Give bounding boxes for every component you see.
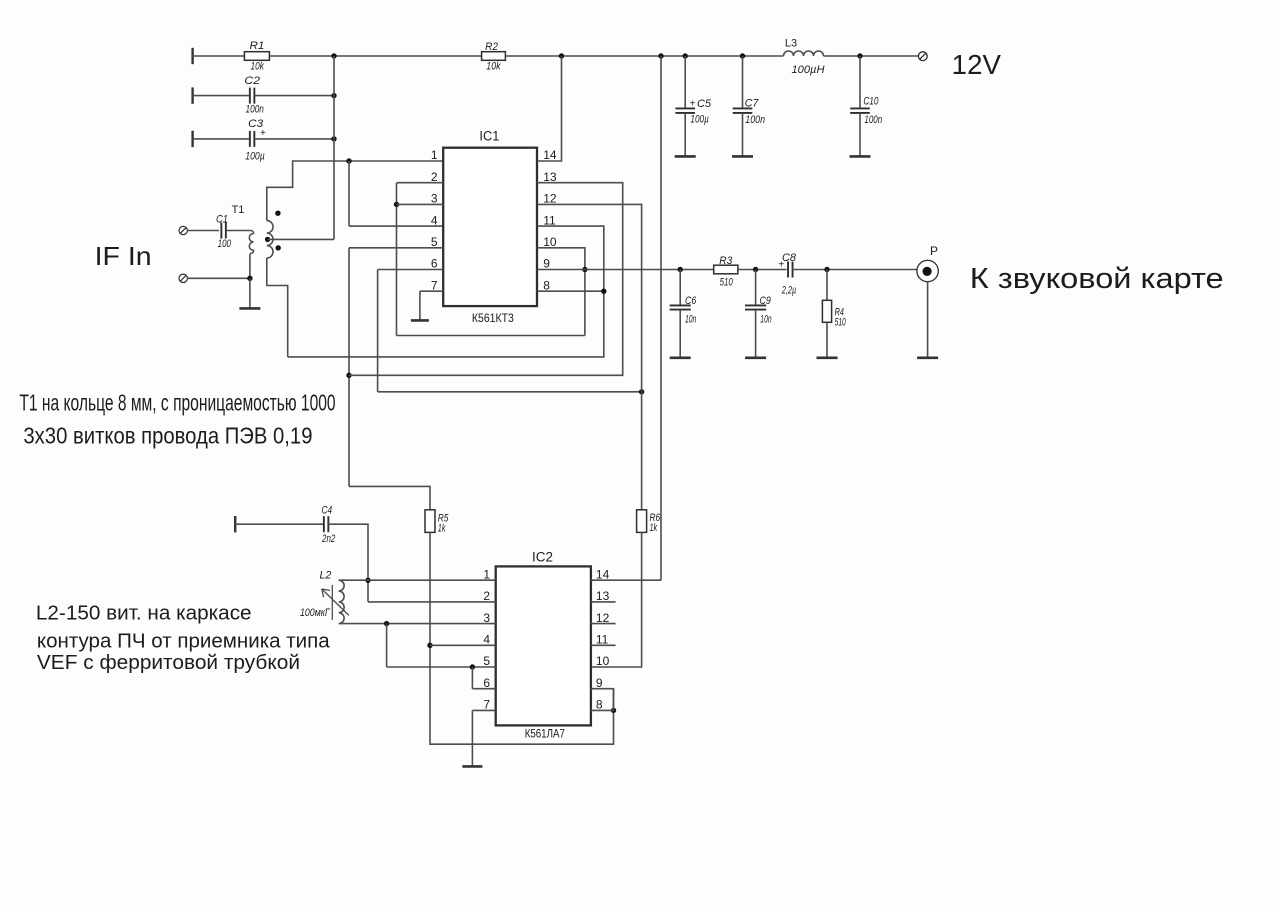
svg-text:3х30 витков провода ПЭВ 0,19: 3х30 витков провода ПЭВ 0,19 [23,422,312,448]
node junction on rail [658,53,663,58]
inductor L3 [784,51,824,56]
svg-text:C4: C4 [322,504,333,516]
wire R6 top [641,392,643,510]
svg-text:К звуковой карте: К звуковой карте [970,263,1224,295]
wire [193,95,250,97]
svg-text:6: 6 [483,676,490,690]
wire [826,270,828,301]
wire [793,269,917,271]
svg-text:R1: R1 [250,40,265,52]
svg-text:2: 2 [431,170,438,184]
core bar of L2 [331,585,333,620]
svg-text:4: 4 [483,633,490,647]
wire [684,56,686,108]
svg-text:4: 4 [431,213,438,227]
svg-text:VEF с ферритовой трубкой: VEF с ферритовой трубкой [37,651,300,674]
svg-text:7: 7 [483,698,490,712]
terminal input C2 row [191,87,193,103]
wire pin 6 of IC2 [472,688,495,690]
wire pin 5 [349,247,443,249]
node junction C9 [753,267,758,272]
wire [269,55,481,57]
svg-text:1k: 1k [650,522,658,534]
wire [254,138,334,140]
svg-text:C2: C2 [244,75,260,87]
node junction C4/pin1 [365,578,370,583]
wire pin 1 of IC2 to L2 top [339,579,496,581]
terminal IF input lower [179,274,187,282]
node T1 center tap [265,237,270,242]
node junction pin6/pin12/R6 [639,389,644,394]
wire pin 5 of IC2 [387,666,496,668]
wire pins 2-3 vertical down [396,183,398,336]
IC U2 К561ЛА7 box [496,566,591,725]
terminal IF input upper [179,226,187,234]
wire secondary top to IC1 pins 1-4 [267,161,443,221]
resistor R1 [244,52,269,61]
node junction C6 [678,267,683,272]
svg-text:10k: 10k [486,61,501,73]
wire pin 8 of IC2 [591,709,614,711]
wire pin 7 [420,290,443,292]
wire [193,138,250,140]
resistor R5 [425,510,435,533]
wire pin 7 of IC2 [472,709,495,711]
resistor R6 [637,510,647,533]
svg-text:9: 9 [596,676,603,690]
svg-text:100µ: 100µ [245,151,265,163]
svg-text:IC1: IC1 [479,128,499,143]
svg-text:К561ЛА7: К561ЛА7 [525,727,565,741]
capacitor C3 polarized [249,131,251,147]
terminal 12V [918,52,927,61]
wire [742,56,744,108]
svg-text:14: 14 [543,148,557,162]
svg-text:1: 1 [483,567,490,581]
svg-text:+: + [690,98,696,109]
capacitor C4 [323,516,325,532]
svg-text:8: 8 [596,698,603,712]
svg-text:контура ПЧ от приемника типа: контура ПЧ от приемника типа [37,630,330,653]
svg-text:C10: C10 [863,95,879,107]
svg-text:C7: C7 [745,97,759,109]
ground of C10 [859,113,861,156]
wire pin 14 of IC2 [591,579,661,581]
svg-text:100µH: 100µH [792,64,825,76]
svg-text:5: 5 [483,654,490,668]
wire center tap to supply [268,238,334,240]
terminal of C4 [234,516,236,532]
svg-text:IC2: IC2 [532,550,553,565]
node junction [331,93,336,98]
terminal input C3 row [191,131,193,147]
svg-text:510: 510 [835,317,847,329]
resistor R2 [482,52,506,61]
wire pins 3-5 vertical [386,624,388,667]
svg-text:T1: T1 [232,204,245,216]
wire supply rail to IC2 pin 14 [660,56,662,580]
wire pin 13 to net [349,183,623,376]
wire pins 5-6 vertical [471,667,473,689]
wire net pins2-3 to pin10 [397,335,585,337]
wire pin 10 [537,248,585,336]
wire [859,56,861,108]
wire C4 to IC2 pins 1-2 [328,524,368,602]
node junction on rail [740,53,745,58]
svg-text:R2: R2 [485,41,498,53]
svg-text:6: 6 [431,257,438,271]
svg-text:C9: C9 [760,295,771,307]
svg-text:2,2µ: 2,2µ [781,284,796,296]
wire [187,230,219,232]
wire pin5-13 net to R5 [349,486,430,509]
stub pin 13 of IC2 [591,601,616,603]
svg-text:12: 12 [543,192,557,206]
terminal input top-left [191,48,193,64]
node junction on rail [857,53,862,58]
wire [679,270,681,306]
ground of P terminal [927,282,929,358]
svg-text:L2-150 вит. на каркасе: L2-150 вит. на каркасе [36,602,252,625]
wire pin 4 [349,225,443,227]
svg-text:L3: L3 [785,38,797,50]
svg-text:К561КТ3: К561КТ3 [472,311,514,325]
node junction pin 3 [394,202,399,207]
terminal P output jack [917,260,938,281]
wire pin 2 [397,182,444,184]
node junction pins 8-11 [601,289,606,294]
wire pin5 vertical down to R5 net [348,248,350,487]
capacitor C6 [670,304,691,306]
svg-text:10n: 10n [685,314,696,326]
svg-text:13: 13 [543,170,557,184]
svg-text:Т1 на кольце 8 мм, с проницаем: Т1 на кольце 8 мм, с проницаемостью 1000 [19,390,335,416]
wire [755,270,757,306]
svg-text:P: P [930,244,938,258]
svg-text:5: 5 [431,235,438,249]
wire R6 bottom to IC2 pin 10 [591,532,642,667]
capacitor C9 [745,304,766,306]
wire [235,523,323,525]
svg-text:100мкГ: 100мкГ [300,607,331,619]
svg-text:10: 10 [543,235,557,249]
svg-text:3: 3 [431,192,438,206]
svg-text:8: 8 [543,278,550,292]
capacitor C10 [850,107,870,109]
wire supply vertical to T1 center tap [333,56,335,239]
node junction pin5/pin13 net [346,373,351,378]
transformer T1 primary winding [249,231,253,279]
resistor R3 [714,265,738,274]
svg-text:C5: C5 [697,98,712,110]
wire pin 6 [378,269,444,271]
wire pin 9 output [537,269,714,271]
svg-text:100n: 100n [745,114,765,126]
wire [187,277,250,279]
capacitor C7 [733,107,753,109]
svg-text:10n: 10n [760,314,771,326]
svg-text:13: 13 [596,589,610,603]
wire R5 bottom to IC2 pin4 and U-route [430,532,614,744]
phase dot lower of T1 [276,245,281,250]
phase dot upper of T1 [275,211,280,216]
svg-text:L2: L2 [319,570,331,582]
capacitor C2 [249,88,251,104]
capacitor C1 [220,223,222,239]
wire pin 8 [537,290,604,292]
node junction [331,136,336,141]
node junction pin 3 of IC2 [384,621,389,626]
adjust arrow of L2 [322,589,349,615]
svg-text:12: 12 [596,611,610,625]
svg-text:2n2: 2n2 [321,533,335,545]
svg-text:C3: C3 [248,118,264,130]
ground of IC1 pin 7 [419,291,421,320]
wire pin6 to R6 net [378,391,642,393]
stub pin 11 of IC2 [591,644,616,646]
wire [738,269,787,271]
stub pin 12 of IC2 [591,623,616,625]
svg-text:C6: C6 [685,295,697,307]
IC U1 К561КТ3 box [443,148,537,306]
wire [193,55,245,57]
node junction pins 5-6 [470,664,475,669]
wire [505,55,783,57]
svg-text:1k: 1k [438,523,446,535]
svg-text:100n: 100n [246,104,264,116]
node junction pin 4 [427,643,432,648]
svg-text:100µ: 100µ [690,113,708,125]
ground of T1 [249,278,251,308]
ground of R4 [826,322,828,358]
node junction pin1 [346,158,351,163]
svg-text:100n: 100n [864,114,882,126]
svg-text:R3: R3 [719,255,733,267]
svg-text:510: 510 [720,276,734,288]
capacitor C8 polarized [787,262,789,278]
ground of C9 [755,310,757,358]
node junction on rail [331,53,336,58]
wire pin 9 of IC2 [591,689,614,711]
wire pin6 vertical [377,270,379,392]
svg-text:11: 11 [596,633,609,647]
svg-text:2: 2 [483,589,490,603]
node junction on rail [559,53,564,58]
wire pin 11 to T1 secondary bottom [288,226,604,357]
wire pin 12 down [537,204,642,391]
node junction R4 [824,267,829,272]
svg-text:11: 11 [543,213,556,227]
wire pin 3 of IC2 to L2 bottom [339,623,496,625]
resistor R4 [822,300,831,322]
svg-text:IF In: IF In [95,241,152,271]
svg-text:10k: 10k [251,60,265,72]
svg-text:12V: 12V [952,49,1002,80]
wire [226,230,250,232]
wire secondary bottom [267,258,288,357]
svg-text:14: 14 [596,567,610,581]
wire pin 3 [397,203,444,205]
svg-text:10: 10 [596,654,610,668]
ground of IC2 pin 7 [471,710,473,766]
svg-text:7: 7 [431,278,438,292]
node junction pins 9-10 [582,267,587,272]
wire pins 1-4 vertical [348,161,350,226]
ground of C6 [679,310,681,358]
inductor L2 adjustable [339,580,344,623]
svg-text:100: 100 [218,238,232,250]
node junction on rail [683,53,688,58]
svg-text:C8: C8 [782,252,797,264]
wire pin 2 of IC2 [368,601,496,603]
wire [254,95,334,97]
node junction T1 bottom [247,276,252,281]
transformer T1 secondary winding [267,221,273,258]
node junction pins 8-9 [611,708,616,713]
svg-text:C1: C1 [216,213,228,225]
capacitor C5 polarized [675,107,695,109]
wire pin 4 of IC2 [430,644,496,646]
wire [824,55,919,57]
svg-text:1: 1 [431,148,438,162]
ground of C7 [742,113,744,156]
svg-text:3: 3 [483,611,490,625]
svg-text:9: 9 [543,257,550,271]
ground of C5 [684,113,686,156]
wire pin 14 to rail [537,56,562,161]
